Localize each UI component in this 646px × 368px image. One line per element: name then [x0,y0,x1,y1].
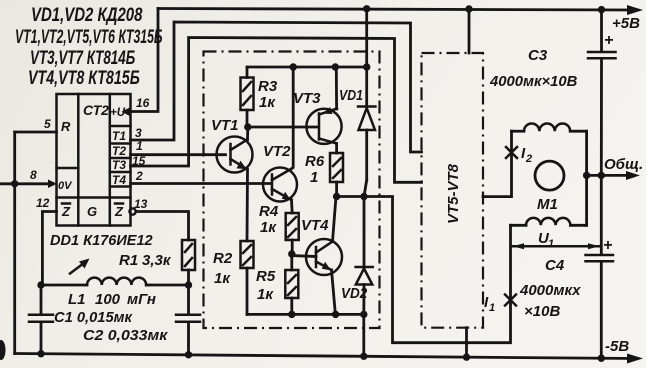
svg-text:Т3: Т3 [112,158,126,172]
C1 value label [54,310,133,326]
svg-text:R3: R3 [258,78,278,95]
svg-text:VD1,VD2 КД208: VD1,VD2 КД208 [31,4,143,25]
svg-text:СТ2: СТ2 [83,102,109,118]
current probe I2 x-mark [506,147,517,158]
svg-text:+: + [604,32,613,49]
wire module bottom to -5V rail [465,328,468,357]
svg-text:1: 1 [136,139,143,153]
svg-text:DD1 К176ИЕ12: DD1 К176ИЕ12 [50,233,153,249]
C4 value label line 2 [524,303,560,320]
U1 voltage arrow [513,243,600,249]
svg-text:VT3: VT3 [293,90,321,107]
pin 1 number [136,139,143,153]
wire VD1 column up to +5V rail [365,9,368,67]
svg-text:Общ.: Общ. [604,156,643,173]
junction C1 on bottom rail [37,350,44,357]
U1 label [538,230,554,250]
pin 13 output bubble [130,208,136,214]
output node wire (y=196.5) to motor feed [337,197,511,343]
C4 value label line 1 [519,282,581,299]
pin 12 wire (Z input) [42,212,56,286]
svg-text:16: 16 [136,96,150,110]
junction VT4 emitter on bus [332,311,339,318]
svg-text:4000мк×10В: 4000мк×10В [489,73,578,90]
svg-text:VT4: VT4 [301,217,329,234]
IC cell label Z-bar (bottom right, inverted) [114,204,124,220]
VD1 label [339,87,363,103]
svg-text:1к: 1к [260,219,277,236]
svg-text:13: 13 [134,197,148,211]
diode VD1 [358,67,375,197]
M1 label [537,196,558,213]
current probe I1 x-mark [505,295,516,306]
pin 5 number [44,117,51,131]
junction module feed on +5 rail [465,5,472,12]
svg-text:R2: R2 [213,250,233,267]
IC cell label R [61,119,71,134]
emitter bus wire (y=314.4) [247,313,364,316]
transistor VT4 [306,197,342,315]
VT2 label [263,143,291,160]
IC cell label Z (bottom left, inverted) [61,204,71,220]
svg-text:VT1: VT1 [211,117,239,134]
svg-text:Z: Z [61,204,71,219]
R1 value label [119,252,172,269]
parts list text block [15,4,163,88]
VT5-VT8 label (rotated) [445,163,462,224]
node junction L1 right [185,281,192,288]
svg-text:М1: М1 [537,196,558,213]
capacitor C1 0.015 [29,285,53,354]
pin 16 wire +U up to +5V rail [131,9,159,112]
wire node to VT3 base (y=127) [248,126,317,129]
svg-text:VT1,VT2,VT5,VT6 КТ315Б: VT1,VT2,VT5,VT6 КТ315Б [15,28,163,48]
svg-text:R: R [61,119,71,134]
pin 16 number [136,96,150,110]
svg-text:С4: С4 [545,257,565,274]
R5 label [256,268,276,303]
svg-text:0V: 0V [58,180,73,192]
IC cell labels T1 T2 T3 T4 [112,129,126,187]
junction on pin8 wire and left vertical [11,180,18,187]
resistor R1 3.3k [182,240,195,270]
C4 plus sign [603,237,612,254]
junction VD1 top on +5 rail [363,5,370,12]
motor lower winding coil [511,175,587,225]
pin 5 wire (R input) [15,131,57,134]
svg-text:VT2: VT2 [263,143,291,160]
common rail (Obsh.) with arrow [587,171,640,180]
pin 3 wire (T1) up over the top (line 2) into VT5-VT8 module [131,22,422,152]
junction R6/VT4 collector on output [333,193,340,200]
VT4 label [301,217,329,234]
junction y67/VT3 emitter [332,63,339,70]
pin 15 wire (T3) up over the top (line 3) into VT5-VT8 module [131,38,422,183]
IC name label DD1 K176IE12 [50,233,153,249]
svg-text:VT4,VT8 КТ815Б: VT4,VT8 КТ815Б [28,67,140,88]
pin 13 wire to R1 [136,212,189,241]
I2 label [521,145,532,165]
junction R5 on emitter bus [288,311,295,318]
top rail +5V from pin16 [158,5,643,15]
svg-text:1: 1 [548,238,554,250]
pin 15 number [132,154,146,168]
svg-text:×10В: ×10В [524,303,560,320]
transistor VT3 (PNP) [306,67,341,153]
svg-text:1: 1 [489,302,495,314]
C3 plus sign [604,32,613,49]
L1 value label [68,291,156,308]
svg-text:-5В: -5В [605,338,629,355]
svg-text:1к: 1к [214,270,231,287]
svg-text:5: 5 [44,117,51,131]
junction y67/VD1 [363,63,370,70]
L1 adjustment arrow [70,259,90,274]
wire module top to +5V rail [468,9,471,53]
junction VD2 on emitter bus [360,311,367,318]
C2 value label [83,327,168,343]
pin 2 wire (T4) to VT2 base [131,182,272,185]
internal +5 feed wire (y=67) [247,66,367,69]
svg-text:+: + [603,237,612,254]
junction on -5V rail [360,353,367,360]
R4 label [259,203,279,236]
svg-text:VD2: VD2 [341,285,367,302]
svg-text:VD1: VD1 [339,87,363,103]
junction C3 on +5 rail [598,6,605,13]
svg-text:4000мкх: 4000мкх [519,282,581,299]
svg-text:С1 0,015мк: С1 0,015мк [54,310,133,326]
resistor R3 1k [241,67,254,127]
svg-text:Z: Z [114,204,124,219]
transistor VT1 [217,127,253,241]
capacitor C4 [586,175,614,358]
svg-text:2: 2 [525,153,532,165]
+5V label [612,15,640,32]
junction C3/C4 column on common rail [598,172,605,179]
left vertical wire from pin5 down to bottom rail [13,132,16,354]
wire VD2/bus down to -5V rail [362,314,365,356]
pin 13 number [134,197,148,211]
resistor R4 1k [286,213,299,254]
svg-text:3,3к: 3,3к [142,252,172,269]
resistor R5 1k [285,254,298,314]
VT3 label [293,90,321,107]
svg-text:2: 2 [135,169,143,183]
diode VD2 [356,197,373,315]
pin 1 wire (T2) to VT1 base [131,153,226,156]
R3 label [258,78,278,111]
capacitor C3 [588,10,616,176]
pin 2 number [135,169,143,183]
junction C2 on bottom rail [185,351,192,358]
node junction L1 left [37,281,44,288]
svg-text:1к: 1к [257,286,274,303]
junction windings / common rail [583,172,590,179]
svg-text:С2 0,033мк: С2 0,033мк [83,327,168,343]
svg-text:R1: R1 [119,252,138,269]
svg-text:R5: R5 [256,268,276,285]
VD2 label [341,285,367,302]
motor M1 circle [535,161,564,190]
IC DD1 K176IE12 counter box [57,94,131,226]
pin 3 number [135,126,142,140]
resistor R6 1 [330,153,343,197]
pin 12 number [36,196,50,210]
VT4 base wire [292,256,316,257]
svg-text:8: 8 [30,168,37,182]
bottom rail -5V [15,354,643,364]
svg-text:L1: L1 [68,291,86,308]
dashed module box (bridge driver) [204,52,380,329]
IC cell label G [87,204,97,219]
junction diodes on output [360,193,367,200]
VT5-VT8 module dashed box [422,53,484,328]
transistor VT2 [263,67,297,213]
svg-text:мГн: мГн [127,291,156,308]
pin 8 number [30,168,37,182]
svg-text:3: 3 [135,126,142,140]
svg-text:Т4: Т4 [112,173,126,187]
-5V label [605,338,629,355]
svg-text:G: G [87,204,97,219]
R6 label [305,153,325,186]
resistor R2 1k [241,241,254,314]
svg-text:15: 15 [132,154,146,168]
C3 label [528,47,548,64]
I1 label [484,294,495,314]
R2 label [213,250,233,287]
VT1 label [211,117,239,134]
svg-text:+U: +U [110,107,126,119]
motor upper winding coil [512,123,587,175]
svg-text:С3: С3 [528,47,548,64]
wire module right to upper winding (I2 branch) [483,131,512,196]
junction R4/R5/VT4 base [288,250,295,257]
svg-text:R6: R6 [305,153,325,170]
wire R1/L1 node down to C2 [187,285,190,314]
svg-text:R4: R4 [259,203,279,220]
svg-text:+5В: +5В [612,15,640,32]
IC label CT2 [83,102,109,118]
junction module emitter on -5V rail [463,353,470,360]
C4 label [545,257,565,274]
Obsh. label [604,156,643,173]
scan blob left edge [0,340,6,360]
svg-text:12: 12 [36,196,50,210]
junction C4 on -5V rail [598,355,605,362]
svg-text:100: 100 [95,291,121,308]
C3 value label [489,73,578,90]
pin 8 wire (0V) from left edge [0,182,49,185]
svg-text:1: 1 [310,169,318,186]
junction y67/VT2 collector [290,63,297,70]
junction VT1 collector / R3 [244,123,251,130]
svg-text:1к: 1к [259,94,276,111]
inductor L1 wire with coil [41,278,189,285]
IC cell label 0V with input arrow pin 8 [48,180,73,193]
svg-text:VT5-VT8: VT5-VT8 [445,163,462,224]
capacitor C2 0.033 [176,315,200,355]
svg-text:VT3,VT7 КТ814Б: VT3,VT7 КТ814Б [30,48,135,69]
IC cell label +U with input arrow pin 16 [110,107,132,120]
wire R1 bottom to L1 node [187,270,190,285]
svg-text:Т1: Т1 [112,129,126,143]
svg-text:Т2: Т2 [112,144,126,158]
